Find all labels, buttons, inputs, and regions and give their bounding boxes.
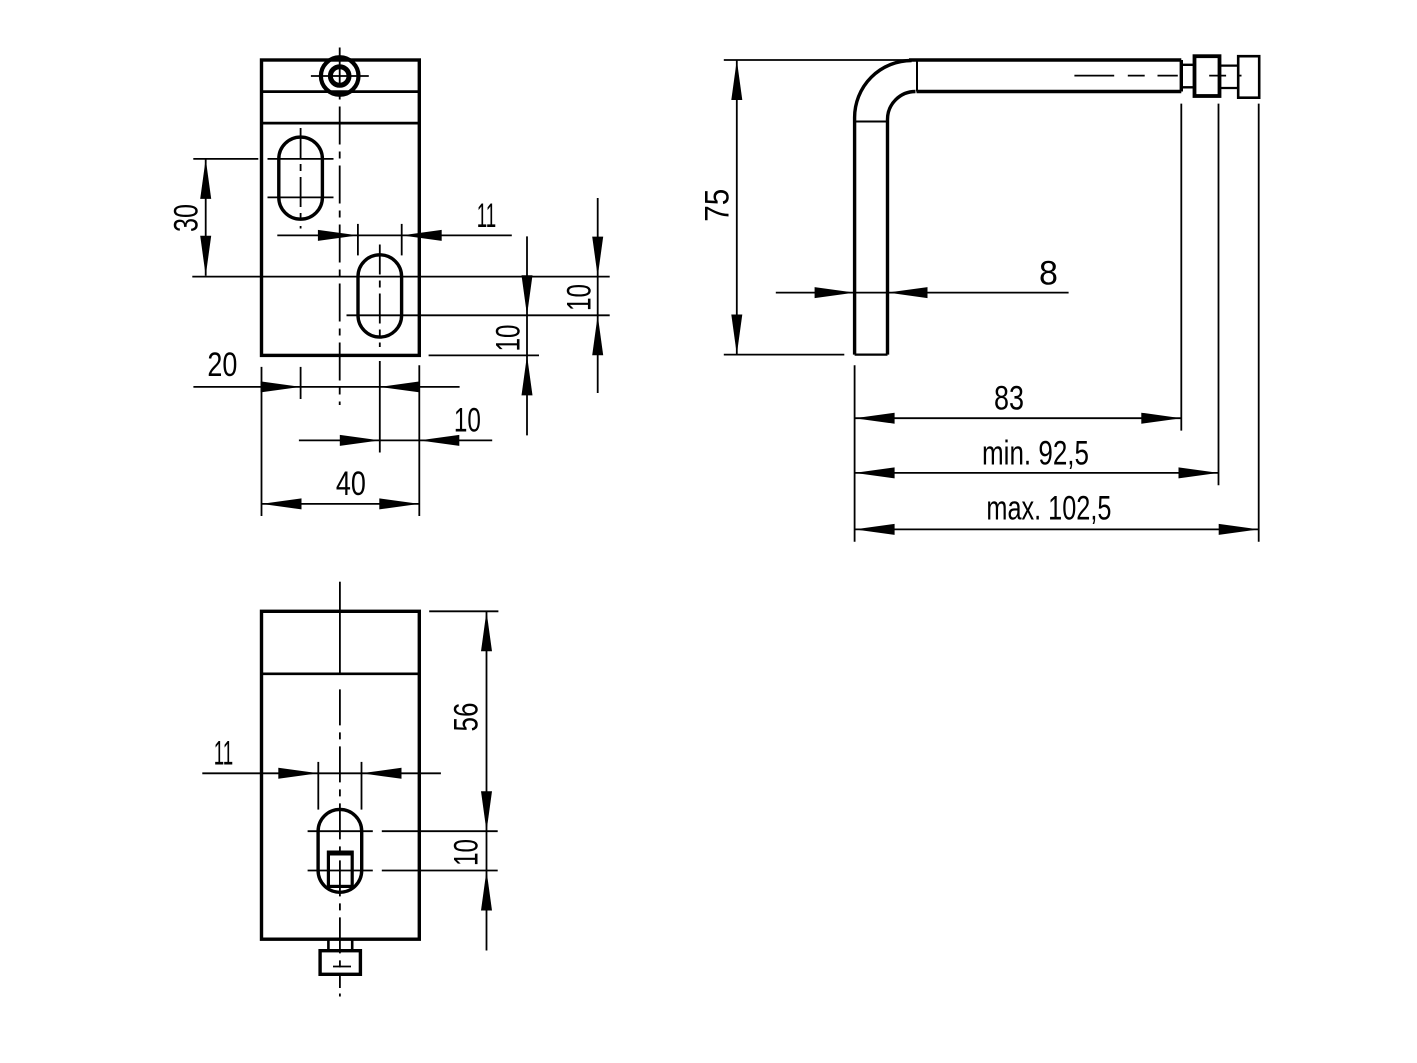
front view body outline — [262, 60, 420, 355]
side view vertical arm right edge — [886, 120, 889, 355]
long line slot2 lower center — [347, 314, 610, 316]
dim 11 arrow right — [278, 768, 318, 779]
body edge line upper — [262, 90, 420, 93]
dim 10 line lower — [299, 439, 492, 441]
shaft top line — [1220, 64, 1239, 66]
dim 75 line — [736, 60, 738, 355]
ext line upper right — [382, 830, 498, 832]
svg-text:83: 83 — [994, 380, 1024, 418]
right dim 10 inner line — [526, 236, 528, 435]
svg-text:75: 75 — [699, 189, 737, 222]
dim 56 line — [486, 611, 488, 950]
svg-text:max. 102,5: max. 102,5 — [986, 490, 1111, 528]
screw neck right — [351, 939, 354, 951]
screw shank top thick edge — [327, 851, 354, 856]
dim 30 line — [205, 159, 207, 276]
screw head outer circle — [321, 57, 359, 95]
side view outer bend arc — [855, 61, 912, 118]
right dim 10 outer arrow down — [592, 237, 603, 277]
right dim 10 inner arrow down — [522, 275, 533, 315]
dim min arrow left — [855, 467, 895, 478]
svg-text:8: 8 — [1039, 254, 1058, 292]
svg-text:40: 40 — [336, 465, 366, 503]
dim 11 left ext — [357, 224, 359, 256]
svg-text:56: 56 — [448, 703, 486, 732]
dim 11 ext left — [317, 762, 319, 810]
dim 75 arrow down — [731, 315, 742, 355]
dim 8 line — [776, 292, 1069, 294]
dim 10 arrow right — [340, 435, 380, 446]
dim 40 right ext — [418, 365, 420, 516]
bottom view inner edge line — [262, 672, 420, 675]
rod axis centerline segments — [1074, 75, 1114, 77]
slot 2 vertical centerline — [379, 245, 381, 348]
screw vertical centerline — [339, 48, 341, 406]
side view bottom edge of arm — [917, 90, 1182, 93]
screw neck left — [327, 939, 330, 951]
dim 20 arrow left — [380, 381, 420, 392]
side view arm end — [1180, 60, 1183, 92]
svg-text:10: 10 — [561, 284, 599, 311]
bottom view centerline end dot — [339, 994, 341, 997]
dim 40 line — [262, 503, 420, 505]
side view vertical arm bottom edge — [855, 354, 888, 356]
dim 11 line bottom view — [202, 772, 441, 774]
dim 56 arrow up — [481, 611, 492, 651]
dim 56 top ext — [429, 610, 498, 612]
dim 20 line — [193, 386, 459, 388]
bottom view slot outline — [318, 809, 362, 892]
end head block — [1238, 56, 1259, 97]
slot 1 vertical centerline — [300, 128, 302, 229]
svg-text:11: 11 — [214, 735, 234, 773]
dim 40 arrow left — [262, 498, 302, 509]
screw horizontal centerline tick — [311, 75, 369, 77]
screw head — [320, 951, 360, 975]
dim 20 ext slot1 center — [300, 367, 302, 399]
dim max arrow right — [1219, 524, 1259, 535]
shaft bottom line — [1220, 87, 1239, 89]
dim max arrow left — [855, 524, 895, 535]
dim 75 arrow up — [731, 60, 742, 100]
dim 8 arrow left — [888, 287, 928, 298]
right dim 10 inner ext bottom — [429, 354, 539, 356]
side view top edge — [909, 58, 1181, 61]
dim 11 arrow left — [402, 230, 442, 241]
slot 2 outline — [358, 255, 402, 337]
dim 11 arrow left — [362, 768, 402, 779]
slot 1 upper tick — [268, 158, 334, 160]
rod neck bottom line — [1181, 86, 1194, 88]
right dim 10 outer arrow up — [592, 315, 603, 355]
right dim 10 outer line — [597, 198, 599, 393]
slot lower tick — [308, 870, 373, 872]
svg-text:10: 10 — [448, 839, 486, 866]
dim 10 arrow left — [419, 435, 459, 446]
ext line 83 right — [1180, 104, 1182, 431]
dim 75 top extension — [724, 59, 909, 61]
dim 11 right ext — [401, 224, 403, 256]
dim max 102,5 line — [855, 528, 1259, 530]
dim 75 bottom extension — [724, 354, 845, 356]
dim 30 arrow up — [200, 159, 211, 199]
long line slot2 upper center — [192, 276, 609, 278]
slot upper tick — [308, 830, 373, 832]
bend tangent tick horizontal — [855, 121, 888, 123]
screw shank rectangle in slot — [328, 852, 352, 886]
slot 1 lower tick — [268, 196, 334, 198]
rod neck top line — [1181, 64, 1194, 66]
dim 83 arrow right — [1141, 413, 1181, 424]
adjuster nut block — [1195, 56, 1220, 96]
shared left extension line — [854, 365, 856, 541]
dim 11 line — [277, 234, 512, 236]
svg-text:10: 10 — [490, 325, 528, 352]
svg-text:10: 10 — [454, 402, 481, 440]
dim 8 arrow right — [815, 287, 855, 298]
dim 20 arrow right — [261, 381, 301, 392]
dim 40 arrow right — [379, 498, 419, 509]
bend tangent tick vertical — [916, 60, 918, 92]
dim 56 arrow down shared — [481, 791, 492, 831]
dim min arrow right — [1179, 467, 1219, 478]
dim 11 ext right — [361, 762, 363, 810]
ext line lower right — [382, 870, 498, 872]
side view vertical arm left edge — [853, 118, 856, 355]
right dim 10 inner arrow up — [522, 355, 533, 395]
screw head center tick — [333, 966, 351, 968]
dim 10 arrow up bottom view — [481, 871, 492, 911]
side view inner bend arc — [888, 92, 916, 120]
bottom view centerline dashed — [339, 689, 341, 988]
dim 30 upper extension line — [193, 158, 258, 160]
dim 83 line — [855, 417, 1182, 419]
svg-text:20: 20 — [207, 346, 237, 384]
slot 2 center extension below — [379, 361, 381, 453]
ext line max right — [1258, 104, 1260, 542]
dim 83 arrow left — [855, 413, 895, 424]
slot 1 outline — [279, 137, 323, 219]
ext line min right — [1218, 104, 1220, 486]
dim 11 arrow right — [318, 230, 358, 241]
svg-text:30: 30 — [167, 204, 205, 232]
body edge line lower — [262, 122, 420, 125]
dim min 92,5 line — [855, 472, 1219, 474]
svg-text:11: 11 — [477, 197, 497, 235]
svg-text:min. 92,5: min. 92,5 — [982, 435, 1089, 473]
bottom view centerline solid top — [339, 582, 341, 675]
bottom view body outline — [262, 611, 420, 939]
dim 30 arrow down — [200, 236, 211, 276]
dim 40 left ext — [261, 367, 263, 516]
screw head inner circle — [330, 67, 349, 86]
